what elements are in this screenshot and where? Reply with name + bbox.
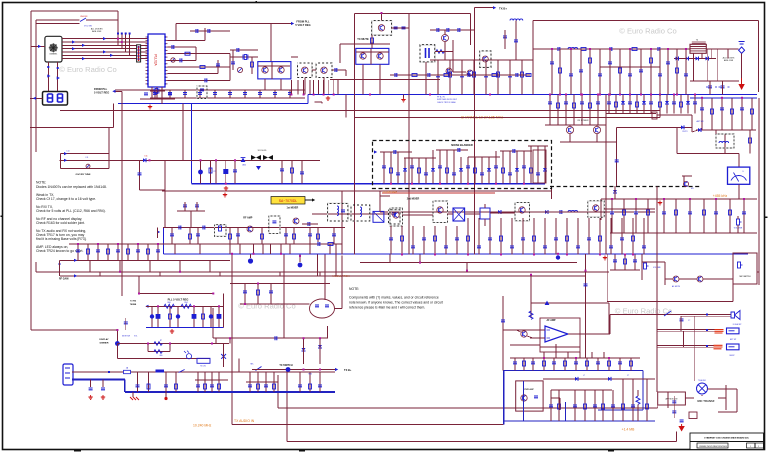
node bus dot — [108, 371, 110, 373]
wire h2 drop — [466, 263, 468, 271]
resistor R102 — [200, 66, 205, 69]
wire coil drop — [515, 21, 517, 61]
capacitor C111 — [231, 62, 235, 64]
trimmer CT4 — [171, 58, 175, 62]
wire pll bottom drop 3 — [161, 87, 163, 104]
transistor TRH3 — [519, 207, 525, 213]
power bus blue main — [125, 391, 335, 393]
wire c82 — [673, 396, 675, 418]
wire stub rf2 4 — [485, 60, 487, 95]
polarized cap CP2 — [198, 170, 203, 175]
capacitor C140 — [708, 86, 712, 88]
junction group j — [543, 357, 545, 359]
wire sp vert1 — [680, 316, 682, 331]
diode D92 — [696, 57, 699, 61]
wire vol riser — [641, 254, 643, 280]
capacitor C106 — [168, 93, 172, 95]
junction group ub1 — [549, 94, 551, 96]
wire drop x129 — [129, 33, 131, 55]
wire c140 drop — [709, 81, 711, 95]
wire pll bottom drop 1 — [151, 87, 153, 99]
node sel-disp 2 — [57, 67, 59, 69]
wire selector row 2 — [62, 41, 148, 43]
resistor R83 — [636, 396, 640, 404]
wire vert x336 — [335, 244, 337, 276]
node drop top 3 — [125, 33, 127, 35]
wire tr5 down — [425, 62, 427, 95]
wire stub group rf — [551, 49, 553, 95]
wire after switch — [86, 19, 118, 21]
wire g rail113 — [606, 113, 656, 115]
node drop top 2 — [121, 33, 123, 35]
junction sq2 — [624, 254, 626, 256]
svg-text:R94: R94 — [184, 302, 187, 304]
meter M1 — [728, 167, 750, 184]
wire stub group sq2 — [614, 255, 616, 271]
wire selector row 6 — [62, 54, 148, 56]
node from-pll arrow — [112, 90, 115, 93]
svg-text:PWR AMP: PWR AMP — [524, 388, 534, 391]
wire rail y260 — [60, 259, 231, 261]
capacitor C153 — [508, 75, 512, 77]
svg-text:NOTE:: NOTE: — [349, 287, 359, 291]
wire rail y98 — [150, 97, 305, 99]
wire rail y161 — [59, 159, 320, 161]
wire bus maroon bottom — [72, 371, 335, 373]
coil L6 — [568, 47, 578, 49]
transistor TRH4 — [593, 205, 599, 211]
resistor R151 — [473, 72, 476, 77]
node arrow row 2 — [82, 44, 85, 47]
wire stub group left-low — [77, 244, 79, 260]
wire sq2 rail — [610, 269, 640, 271]
capacitor C91 — [124, 322, 128, 324]
bus blue main — [308, 94, 757, 96]
wire stub group g — [611, 199, 613, 233]
wire stub group 260-271 — [89, 260, 91, 272]
capacitor C160 — [458, 28, 460, 32]
capacitor C32 — [195, 205, 199, 207]
wire b mid v1 — [339, 44, 341, 63]
IF can T3 — [351, 205, 370, 221]
wire oa in2 — [530, 337, 545, 339]
junction dimmer — [147, 343, 149, 345]
wire pll right 1 — [168, 39, 206, 41]
wire left col to330 — [30, 110, 32, 330]
diode D5 — [241, 158, 246, 162]
transistor TR7 — [360, 53, 366, 59]
capacitor C78 — [269, 291, 273, 293]
svg-text:TX MUTE: TX MUTE — [357, 37, 369, 41]
power bus maroon upper-left — [115, 89, 305, 91]
wire box right — [758, 21, 760, 93]
resistor R82 — [529, 311, 533, 319]
wire x109 col — [108, 127, 110, 168]
svg-text:RF GAIN: RF GAIN — [59, 277, 69, 280]
coil L10 — [568, 210, 578, 212]
ground cap 1 — [90, 380, 92, 388]
diode D33 — [302, 348, 306, 351]
wire osc down 1 — [264, 79, 266, 90]
wire stub rf2 7 — [521, 60, 523, 95]
svg-text:MUTE SW: MUTE SW — [122, 336, 130, 338]
wire mix upper row — [177, 210, 205, 212]
frame tick bottom-right — [608, 450, 614, 452]
wire x345 drop — [345, 95, 347, 118]
polarized cap CP1 — [248, 258, 253, 263]
fuse F1 — [124, 370, 131, 373]
frame tick right — [765, 216, 768, 218]
capacitor C161 — [514, 40, 518, 42]
capacitor group pa — [549, 405, 553, 407]
svg-text:+1.4 MB: +1.4 MB — [622, 428, 635, 432]
resistor R70 — [154, 342, 163, 346]
wire dimmer v223 — [223, 344, 225, 368]
transistor TR-AFMUTE — [673, 276, 679, 282]
wire x327 up — [327, 326, 329, 338]
wire vol-af h303 — [531, 302, 609, 304]
LED display DS1 — [43, 92, 68, 106]
wire g join — [600, 199, 602, 220]
wire vert x606 — [605, 95, 607, 255]
junction vol-af — [530, 274, 532, 276]
op-amp box — [540, 318, 580, 352]
capacitor group ub3 — [700, 108, 704, 110]
wire rail y271 — [60, 271, 609, 273]
op-amp U3 — [545, 326, 568, 342]
IF transformer T1 — [453, 208, 465, 221]
wire drop x121 — [121, 33, 123, 49]
wire stub group rfamp — [171, 228, 173, 245]
capacitor C28 — [179, 226, 181, 230]
switch S4 — [664, 311, 671, 316]
power arrow gnd-j — [678, 426, 684, 432]
frame tick left — [1, 215, 3, 217]
wire mt wires — [685, 397, 694, 399]
trimmer CT5 — [86, 164, 90, 168]
diode D21 — [545, 210, 548, 214]
resistor R101 — [185, 52, 190, 55]
wire vert x218 seg — [217, 60, 219, 74]
wire sel-disp 2 — [57, 62, 59, 91]
svg-text:TX SWITCH: TX SWITCH — [279, 364, 292, 367]
wire tr6 top — [381, 13, 383, 21]
svg-text:PA SP: PA SP — [729, 354, 735, 357]
TX MUTE block box — [356, 48, 389, 64]
dashed box TR6 — [372, 21, 392, 36]
svg-text:8 OHM SP: 8 OHM SP — [733, 324, 742, 326]
wire j rail345 — [510, 344, 540, 346]
wire stub group 271-275 — [99, 272, 101, 276]
wire row y330 — [31, 329, 117, 331]
wire tr6 right — [392, 27, 409, 29]
junction group 260-271 — [119, 271, 121, 273]
transistor TR5c — [446, 68, 452, 74]
wire dimmer vert — [116, 344, 118, 359]
selector knob symbol — [49, 44, 57, 52]
wire left col bottom — [35, 262, 37, 272]
junction row cross 2 — [121, 41, 123, 43]
wire sp pair1b — [681, 315, 733, 317]
svg-text:L10: L10 — [67, 151, 70, 153]
wire rail y275 — [60, 275, 586, 277]
wire r115 — [371, 35, 373, 48]
svg-text:FROM PLL: FROM PLL — [94, 87, 108, 91]
relay box K2 — [689, 412, 697, 419]
transistor TRH1 — [393, 212, 399, 218]
wire sp vert2 — [683, 331, 685, 347]
wire top-left upper — [31, 10, 118, 12]
wire h upper connects — [380, 195, 390, 197]
wire nb right drop — [551, 188, 553, 199]
diode D4 — [143, 158, 146, 162]
resistor R94 — [181, 304, 191, 308]
bus blue reg rail — [146, 327, 223, 329]
svg-text:C?: C? — [688, 320, 690, 322]
frame tick bottom-mid — [299, 450, 305, 452]
svg-text:M3: M3 — [691, 188, 694, 190]
svg-text:SA~7070DL: SA~7070DL — [279, 199, 297, 203]
wire dimmer riser2 — [215, 338, 217, 343]
capacitor C116 — [402, 27, 406, 29]
svg-text:2nd MIXER: 2nd MIXER — [407, 198, 420, 201]
PLL right pins — [165, 36, 168, 38]
wire left vertical x36 — [35, 20, 37, 152]
svg-text:T5 AUDIO: T5 AUDIO — [698, 379, 707, 382]
wire b mid h1 — [340, 43, 390, 45]
wire left col x122 — [121, 91, 123, 296]
highlight label SA7070 — [271, 197, 305, 205]
wire t4 right — [706, 48, 738, 50]
svg-text:CHECK TR12 IF DEAD: CHECK TR12 IF DEAD — [437, 101, 456, 104]
wire top-left third — [36, 23, 80, 25]
wire box top — [533, 20, 759, 22]
wire stub group pa — [550, 390, 552, 421]
dashed box TRH1 — [390, 208, 403, 226]
capacitor C101 — [172, 45, 174, 49]
wire txmute down — [362, 64, 364, 94]
oscillator block box — [258, 62, 291, 79]
wire nb h5 — [500, 150, 532, 152]
wire selector row 1 — [62, 38, 148, 40]
svg-text:XF1 10.695: XF1 10.695 — [258, 150, 267, 152]
wire pa rail379 — [543, 378, 655, 380]
transistor M3 — [683, 181, 688, 186]
wire vertical x118 — [117, 11, 119, 42]
wire osc down 2 — [280, 79, 282, 90]
power switch S2 — [156, 370, 165, 373]
svg-text:TX AUDIO IN: TX AUDIO IN — [234, 419, 255, 423]
microphone element MC1 — [310, 299, 335, 318]
transistor TR16 — [593, 126, 600, 133]
svg-text:7805B: 7805B — [130, 304, 137, 306]
svg-text:R?: R? — [214, 171, 216, 173]
capacitor group ub2 — [607, 102, 611, 104]
wire sel-disp 1 — [47, 62, 49, 91]
svg-text:10.695 MHz: 10.695 MHz — [383, 190, 398, 194]
wire top box mid — [355, 13, 471, 15]
junction group txaudio — [229, 337, 231, 339]
dashed box C-pack — [269, 216, 280, 233]
svg-text:1: 1 — [758, 446, 759, 448]
dashed box TR5b — [480, 51, 491, 68]
wire s-link — [314, 101, 322, 103]
power bus blue drop — [124, 380, 126, 393]
wire rail y227 — [163, 227, 345, 229]
svg-text:D11: D11 — [145, 156, 148, 158]
diode D30 — [221, 354, 226, 359]
node txb arrow — [493, 6, 496, 9]
crystal X1 — [242, 55, 244, 60]
wire vert x278 — [277, 375, 279, 408]
junction row cross 1 — [117, 38, 119, 40]
wire selector row 7 — [62, 58, 148, 60]
wire b h2 — [291, 56, 298, 58]
wire tune left — [59, 154, 61, 169]
transistor TR1 — [262, 67, 268, 73]
junction group 253 — [253, 253, 255, 255]
capacitor C22 — [138, 173, 142, 175]
diode D93 — [706, 57, 709, 61]
wire stub group if-strip — [200, 160, 202, 183]
jack J2 — [715, 330, 724, 334]
wire sp pair2b — [657, 330, 715, 332]
wire h rail fill — [402, 214, 433, 216]
capacitor group h — [389, 238, 393, 240]
wire g h127 — [616, 126, 692, 128]
resistor R77 — [257, 290, 260, 295]
wire stub group y90-98 — [154, 90, 156, 98]
wire dimmer rail — [117, 343, 229, 345]
wire j rail358 — [510, 357, 640, 359]
wire sq low v733 — [732, 284, 734, 302]
wire nb h6 — [528, 145, 548, 147]
PLL left pins — [146, 36, 149, 38]
node rfamp in — [157, 230, 160, 233]
crystal filter XF1 — [251, 155, 261, 160]
wire t4 drop 2 — [701, 53, 703, 58]
wire b-left rail2 — [230, 56, 258, 58]
capacitor C117 — [335, 68, 337, 72]
IF can T5 — [389, 210, 400, 224]
wire vert x196 seg — [195, 47, 197, 60]
ground disc — [164, 397, 167, 400]
junction group osc-bus — [290, 94, 292, 96]
wire x113 col — [113, 104, 115, 128]
ground g199 — [658, 201, 662, 205]
wire oa fb — [555, 344, 557, 352]
switch S3 — [179, 370, 185, 373]
wire reg top riser — [138, 276, 140, 294]
wire bottom y424 — [232, 424, 504, 426]
node selector left — [38, 45, 41, 48]
bus blue rail y253 — [164, 253, 356, 255]
wire mod links — [657, 398, 659, 408]
wire d42 — [614, 186, 616, 199]
dashed box TR4 — [316, 63, 332, 78]
wire right links — [656, 187, 658, 316]
capacitor C82 — [672, 401, 676, 403]
node nb in arrow — [374, 150, 377, 153]
ground cap 2 — [102, 380, 104, 388]
capacitor group rf — [550, 62, 554, 64]
svg-text:TX B+: TX B+ — [499, 6, 507, 10]
title block cell divider — [754, 443, 756, 448]
node txb2 arrow — [335, 368, 338, 371]
wire x139 col — [139, 160, 141, 190]
wire stub rf2 3 — [473, 60, 475, 95]
capacitor C103 — [205, 78, 207, 82]
capacitor C26 — [300, 172, 304, 174]
wire g v725 — [724, 134, 726, 153]
wire stub rf2 6 — [509, 60, 511, 95]
wire tr4 down — [323, 78, 325, 95]
wire vert x284 — [283, 255, 285, 339]
svg-text:PLL02A: PLL02A — [154, 54, 158, 66]
node drop top 1 — [117, 33, 119, 35]
svg-text:FROM PLL: FROM PLL — [296, 20, 310, 24]
PLL IC U1 — [148, 34, 165, 87]
svg-text:TX LED: TX LED — [200, 366, 207, 368]
LDR R72 — [186, 354, 191, 359]
wire pll right 7 — [168, 79, 231, 81]
svg-text:ARE 4148: ARE 4148 — [724, 59, 734, 62]
capacitor C nb1 — [394, 150, 396, 154]
antenna symbol — [739, 42, 745, 45]
dashed wire nb-right — [550, 186, 700, 188]
ground rail191 — [223, 193, 227, 197]
ceramic filter CF1 — [480, 208, 490, 219]
capacitor C h1 — [560, 210, 562, 214]
svg-text:NOISE BLANKER: NOISE BLANKER — [451, 143, 473, 147]
wire drop x118 — [117, 33, 119, 45]
wire rail y117 — [355, 116, 660, 118]
wire sq wires — [757, 271, 759, 273]
dashed box TR5 — [420, 45, 435, 62]
wire stub group power — [137, 372, 139, 392]
wire rail y244 — [69, 243, 342, 245]
power bus blue thick — [72, 379, 125, 381]
node arrow row 6 — [82, 57, 85, 60]
wire reg top — [139, 293, 213, 295]
svg-text:RF POWER: RF POWER — [578, 120, 589, 122]
bus blue rail y253 riser — [163, 228, 165, 254]
resistor R21 — [209, 168, 212, 173]
wire nb h3 — [436, 149, 468, 151]
potentiometer SQUELCH — [738, 262, 741, 268]
resistor R110 — [251, 62, 254, 67]
wire rail y283 — [230, 283, 330, 285]
wire tune bottom — [60, 167, 109, 169]
svg-text:ARE 4148: ARE 4148 — [92, 30, 102, 33]
junction group h — [401, 254, 403, 256]
capacitor C107 — [196, 29, 198, 33]
wire stub group ub2 — [608, 95, 610, 114]
relay box K1 — [652, 112, 657, 119]
wire stub group j1 — [514, 358, 516, 371]
transistor TR3 — [302, 67, 308, 73]
capacitor C104 — [216, 64, 220, 66]
diode D42 — [613, 190, 617, 193]
wire pll right 2 — [168, 46, 197, 48]
wire reg right v — [222, 294, 224, 328]
svg-text:AF AMP: AF AMP — [546, 319, 555, 322]
nb right box — [533, 150, 546, 183]
capacitor C25 — [280, 169, 284, 171]
transistor TR-AFMUTE2 — [697, 276, 703, 282]
bus blue pa v1 — [522, 381, 524, 421]
diode D50 — [545, 301, 550, 305]
